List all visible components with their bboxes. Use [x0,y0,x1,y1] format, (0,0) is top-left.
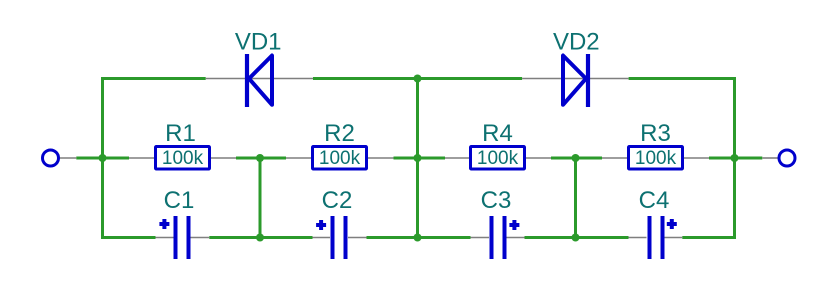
svg-text:VD2: VD2 [553,29,600,56]
svg-text:C4: C4 [639,187,670,214]
node: junction mid R4-R3 [572,154,580,162]
node: junction right-mid [731,154,739,162]
svg-text:100k: 100k [319,148,361,169]
node: junction mid-center [414,154,422,162]
svg-text:100k: 100k [477,148,519,169]
svg-text:C3: C3 [481,187,512,214]
svg-text:R1: R1 [165,120,196,147]
node: junction bottom-center [414,234,422,242]
node: junction bottom C1-C2 [256,234,264,242]
wire: bottom rail C2-C3 segment [367,236,471,239]
svg-text:R4: R4 [482,120,513,147]
capacitor C2 [313,187,367,259]
svg-text:100k: 100k [635,148,677,169]
wire: bottom rail C1-C2 segment [209,236,312,239]
capacitor C4 [629,187,683,259]
wire: mid rail R2-R4 stub [394,157,446,160]
diode VD1 [206,29,313,108]
svg-text:R3: R3 [640,120,671,147]
svg-text:C1: C1 [164,187,195,214]
capacitor C3 [471,187,525,259]
port: right terminal [762,150,795,166]
svg-text:C2: C2 [322,187,353,214]
svg-text:100k: 100k [162,148,204,169]
diode VD2 [522,29,629,108]
node: junction bottom C3-C4 [572,234,580,242]
wire: mid rail R4-R3 stub [551,157,602,160]
wire: bottom rail right segment [682,236,736,239]
node: junction left-mid [99,154,107,162]
wire: vertical between R1/R2 columns [259,158,262,238]
wire: top rail right segment [629,77,736,80]
resistor R1 [129,120,236,169]
wire: mid rail port-left stub [76,157,129,160]
wire: top rail middle segment [313,77,522,80]
node: junction top-center [414,75,422,83]
wire: bottom rail C3-C4 segment [525,236,629,239]
resistor R2 [286,120,394,169]
wire: vertical between R4/R3 columns [574,158,577,238]
wire: top rail left segment [101,77,206,80]
resistor R4 [445,120,551,169]
wire: mid rail R1-R2 stub [236,157,286,160]
wire: right vertical [733,77,736,239]
svg-text:R2: R2 [324,120,355,147]
wire: bottom rail left segment [101,236,156,239]
node: junction mid R1-R2 [256,154,264,162]
port: left terminal [43,150,77,166]
wire: mid rail R3-port stub [709,157,762,160]
capacitor C1 [156,187,210,259]
svg-text:VD1: VD1 [235,29,282,56]
resistor R3 [602,120,709,169]
wire: center vertical [416,79,419,238]
wire: left vertical [101,77,104,239]
